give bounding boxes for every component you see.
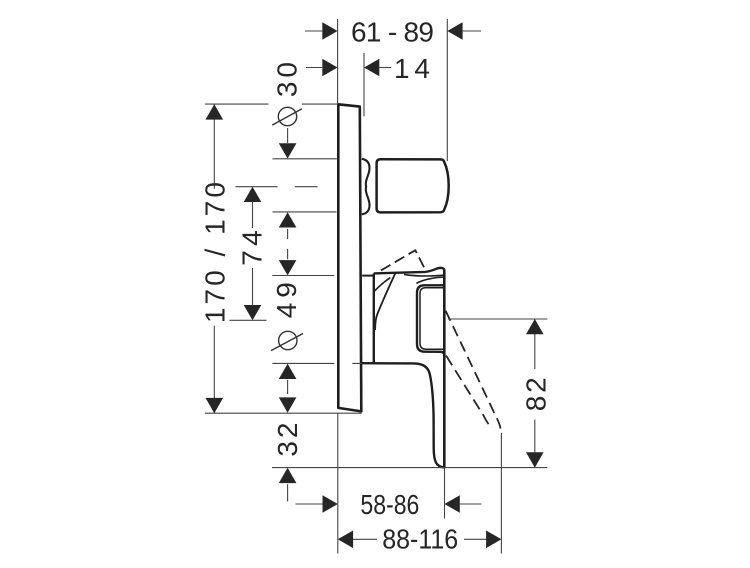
- leader below 32 chain: [287, 484, 289, 501]
- dimension 58-86 left arrow: [323, 495, 338, 513]
- dimension 170/170 bottom arrow: [206, 398, 224, 413]
- handle base bottom edge and lever back edge: [362, 363, 444, 467]
- extension line lever front bottom: [444, 468, 446, 519]
- extension line handle bottom: [272, 362, 362, 364]
- dimension 170/170 top arrow: [206, 104, 224, 119]
- dimension 61-89 right arrow: [447, 22, 462, 40]
- svg-text:74: 74: [236, 230, 267, 266]
- dimension 74 top arrow: [244, 187, 262, 202]
- dimension 58-86 left tail: [296, 503, 323, 505]
- dimension 88-116 left arrow: [338, 531, 353, 549]
- lever bottom reference line: [272, 467, 547, 469]
- svg-text:32: 32: [272, 423, 303, 457]
- svg-text:58-86: 58-86: [360, 489, 419, 520]
- dimension 30 arrow up below knob bottom line: [279, 212, 297, 227]
- dimension 14 left arrow: [322, 59, 337, 77]
- extension line dashed lever end: [500, 433, 502, 554]
- extension line knob bottom: [273, 211, 337, 213]
- dimension 14 line left tail: [306, 67, 322, 69]
- handle lever front edge: [443, 269, 446, 467]
- dimension 61-89 right tail: [463, 30, 481, 32]
- dimension 82 line: [534, 319, 536, 468]
- dimension 82 bottom arrow: [526, 452, 544, 467]
- handle grip window outer: [417, 285, 445, 354]
- svg-text:170 / 170: 170 / 170: [200, 182, 231, 323]
- dimension 61-89 line left tail: [305, 30, 322, 32]
- svg-text:14: 14: [394, 53, 430, 84]
- dimension 14 right tail: [379, 67, 391, 69]
- dimension 14 right arrow: [364, 59, 379, 77]
- leader between 49 and 32 chains: [287, 380, 289, 394]
- handle top edge: [374, 268, 445, 274]
- extension line handle top: [272, 275, 334, 277]
- extension line knob front: [446, 19, 448, 161]
- extension line wall bottom: [337, 413, 339, 553]
- handle cone fillet curve: [374, 278, 390, 292]
- dimension 30 arrow down: [279, 143, 297, 158]
- extension line plate front top: [363, 53, 365, 116]
- 82 top reference line: [448, 318, 547, 320]
- svg-text:30: 30: [272, 62, 303, 97]
- dimension 32 arrow down at plate bottom line: [279, 397, 297, 412]
- wall plate: [338, 104, 361, 411]
- handle cap seam 2: [416, 277, 444, 283]
- handle cap seam 1: [404, 274, 444, 276]
- knob stem: [362, 159, 370, 215]
- dimension 74 bottom arrow: [244, 305, 262, 320]
- handle rosette top line: [362, 275, 374, 277]
- diameter symbol for 49: [279, 331, 297, 349]
- dimension 58-86 right arrow: [445, 495, 460, 513]
- dimension 74 leader bottom: [252, 268, 254, 305]
- svg-text:82: 82: [521, 377, 552, 411]
- extension line knob top: [273, 158, 337, 160]
- dimension 61-89 left arrow: [322, 22, 337, 40]
- dimension 58-86 right tail: [460, 503, 482, 505]
- dimension 30 leader: [287, 128, 289, 143]
- handle cone slant: [375, 273, 395, 330]
- dimension 49 arrow down at handle top line: [279, 260, 297, 275]
- dimension 82 top arrow: [526, 319, 544, 334]
- extension line plate top: [205, 103, 338, 105]
- handle axis centerline: [230, 319, 267, 321]
- leader between 30 and 49 chains: [287, 229, 289, 259]
- extension line plate bottom: [205, 412, 362, 414]
- svg-text:49: 49: [271, 282, 302, 318]
- dimension 88-116 line: [353, 538, 486, 540]
- handle rosette front edge: [373, 273, 375, 363]
- dimension 49 arrow up below handle bottom line: [279, 364, 297, 379]
- dimension 32 arrow up below lever bottom line: [279, 468, 297, 483]
- handle grip window inner: [420, 288, 444, 350]
- diameter symbol for 30: [278, 107, 296, 125]
- extension line wall top: [337, 19, 339, 104]
- dimension 74 leader top: [252, 202, 254, 228]
- dimension 88-116 right arrow: [486, 531, 501, 549]
- dashed lever raised position lower edge: [446, 356, 492, 428]
- dashed lever raised position upper edge: [379, 250, 427, 272]
- svg-text:61 - 89: 61 - 89: [351, 16, 434, 47]
- svg-text:88-116: 88-116: [382, 524, 458, 555]
- knob: [377, 159, 449, 212]
- knob axis centerline: [236, 186, 318, 188]
- dimension 170/170 line: [213, 104, 215, 413]
